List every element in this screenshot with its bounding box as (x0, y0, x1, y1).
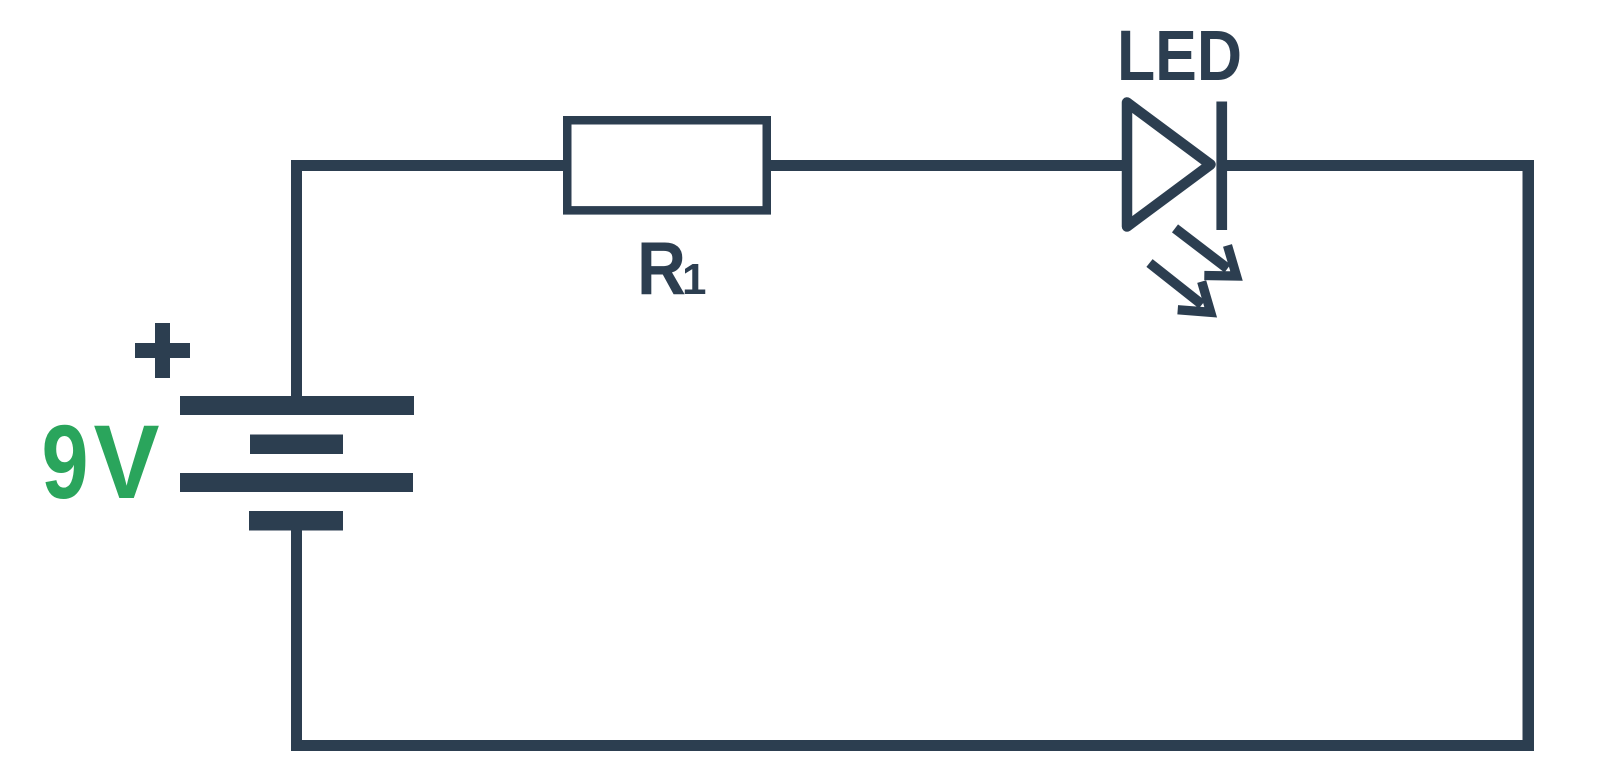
battery BT1: long plate 3 (180, 473, 413, 492)
wire: battery negative plate down to bottom rail (291, 530, 302, 751)
wire: right rail vertical (1523, 160, 1535, 751)
svg-text:R: R (637, 226, 686, 310)
LED D1: anode triangle (1127, 103, 1211, 227)
svg-text:V: V (94, 404, 160, 521)
LED D1: cathode bar (1216, 102, 1227, 231)
wire: left rail, top corner down to battery positive plate (291, 160, 302, 396)
LED D1: light emission arrow 2 (lower) (1150, 263, 1211, 312)
resistor R1 body (567, 120, 767, 210)
wire: bottom rail (291, 740, 1534, 751)
wire: top rail, resistor R1 to LED anode (771, 160, 1122, 171)
wire: top rail, LED cathode to right rail (1227, 160, 1534, 171)
svg-text:1: 1 (682, 255, 706, 304)
battery BT1: short plate 2 (250, 435, 343, 455)
LED D1: light emission arrow 1 (upper) (1175, 228, 1237, 276)
battery BT1: negative short plate 4 (249, 511, 343, 531)
wire: top rail, battery + to resistor R1 (291, 160, 563, 171)
battery BT1: positive long plate (180, 396, 414, 415)
battery BT1: plus polarity mark (135, 323, 190, 378)
svg-text:9: 9 (42, 404, 89, 521)
svg-text:LED: LED (1117, 17, 1242, 96)
